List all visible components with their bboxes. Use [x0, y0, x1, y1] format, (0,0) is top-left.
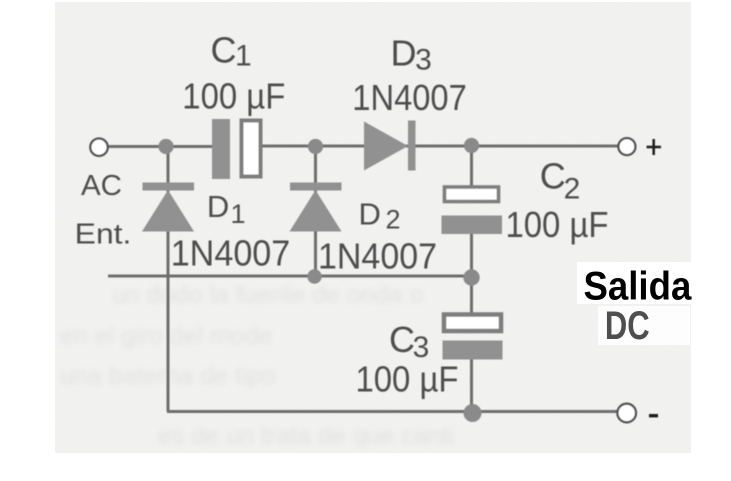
svg-text:D: D	[391, 32, 417, 73]
svg-text:Ent.: Ent.	[75, 219, 132, 251]
svg-text:AC: AC	[81, 170, 122, 202]
svg-text:2: 2	[564, 173, 581, 206]
svg-text:C: C	[540, 156, 566, 197]
svg-text:1: 1	[231, 199, 246, 229]
svg-text:100 µF: 100 µF	[506, 204, 609, 245]
svg-text:100 µF: 100 µF	[182, 76, 285, 117]
svg-text:3: 3	[415, 44, 432, 77]
svg-text:1N4007: 1N4007	[352, 77, 467, 118]
svg-text:D: D	[359, 197, 381, 232]
svg-text:1N4007: 1N4007	[171, 233, 291, 274]
svg-text:D: D	[207, 189, 229, 224]
svg-text:DC: DC	[605, 304, 650, 348]
svg-text:C: C	[389, 319, 415, 360]
svg-text:1: 1	[235, 39, 252, 72]
svg-text:Salida: Salida	[584, 264, 693, 308]
svg-text:1N4007: 1N4007	[318, 236, 437, 277]
svg-text:C: C	[211, 29, 237, 70]
svg-text:100 µF: 100 µF	[356, 359, 459, 400]
svg-text:2: 2	[386, 205, 401, 235]
